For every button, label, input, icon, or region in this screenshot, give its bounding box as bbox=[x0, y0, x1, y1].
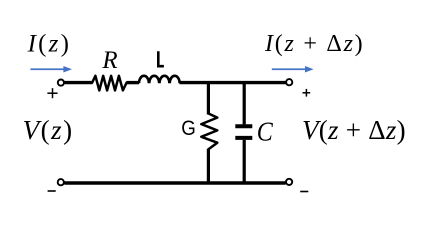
svg-text:C: C bbox=[257, 116, 274, 147]
capacitor C1 bottom plate bbox=[235, 136, 252, 140]
resistor R1 zigzag bbox=[92, 76, 126, 91]
plus sign left bbox=[47, 88, 57, 98]
terminal bottom-right bbox=[286, 179, 292, 185]
svg-text:I(z + Δz): I(z + Δz) bbox=[264, 31, 364, 57]
wire shunt C branch bottom bbox=[243, 140, 246, 183]
wire top-left segment bbox=[64, 81, 93, 84]
svg-text:R: R bbox=[101, 47, 117, 74]
wire between R and L bbox=[127, 81, 139, 84]
wire bottom bbox=[64, 181, 285, 184]
svg-text:G: G bbox=[181, 117, 196, 140]
minus sign right bbox=[300, 191, 308, 193]
svg-text:V(z): V(z) bbox=[23, 115, 74, 145]
terminal top-right bbox=[286, 79, 292, 85]
current arrow left bbox=[30, 66, 72, 73]
capacitor C1 top plate bbox=[235, 124, 252, 128]
wire shunt C branch top bbox=[243, 83, 246, 125]
current arrow right bbox=[272, 66, 314, 73]
terminal bottom-left bbox=[58, 179, 64, 185]
inductor L1 coil bbox=[139, 76, 180, 83]
wire top-right segment bbox=[180, 81, 286, 84]
svg-text:I(z): I(z) bbox=[27, 31, 72, 58]
minus sign left bbox=[48, 190, 56, 192]
svg-text:V(z + Δz): V(z + Δz) bbox=[302, 115, 406, 145]
terminal top-left bbox=[58, 80, 64, 86]
resistor G2 zigzag bbox=[201, 114, 217, 150]
label L bbox=[158, 51, 164, 66]
plus sign right bbox=[303, 89, 311, 97]
wire shunt G branch bottom bbox=[207, 149, 210, 183]
wire shunt G branch top bbox=[207, 83, 210, 115]
